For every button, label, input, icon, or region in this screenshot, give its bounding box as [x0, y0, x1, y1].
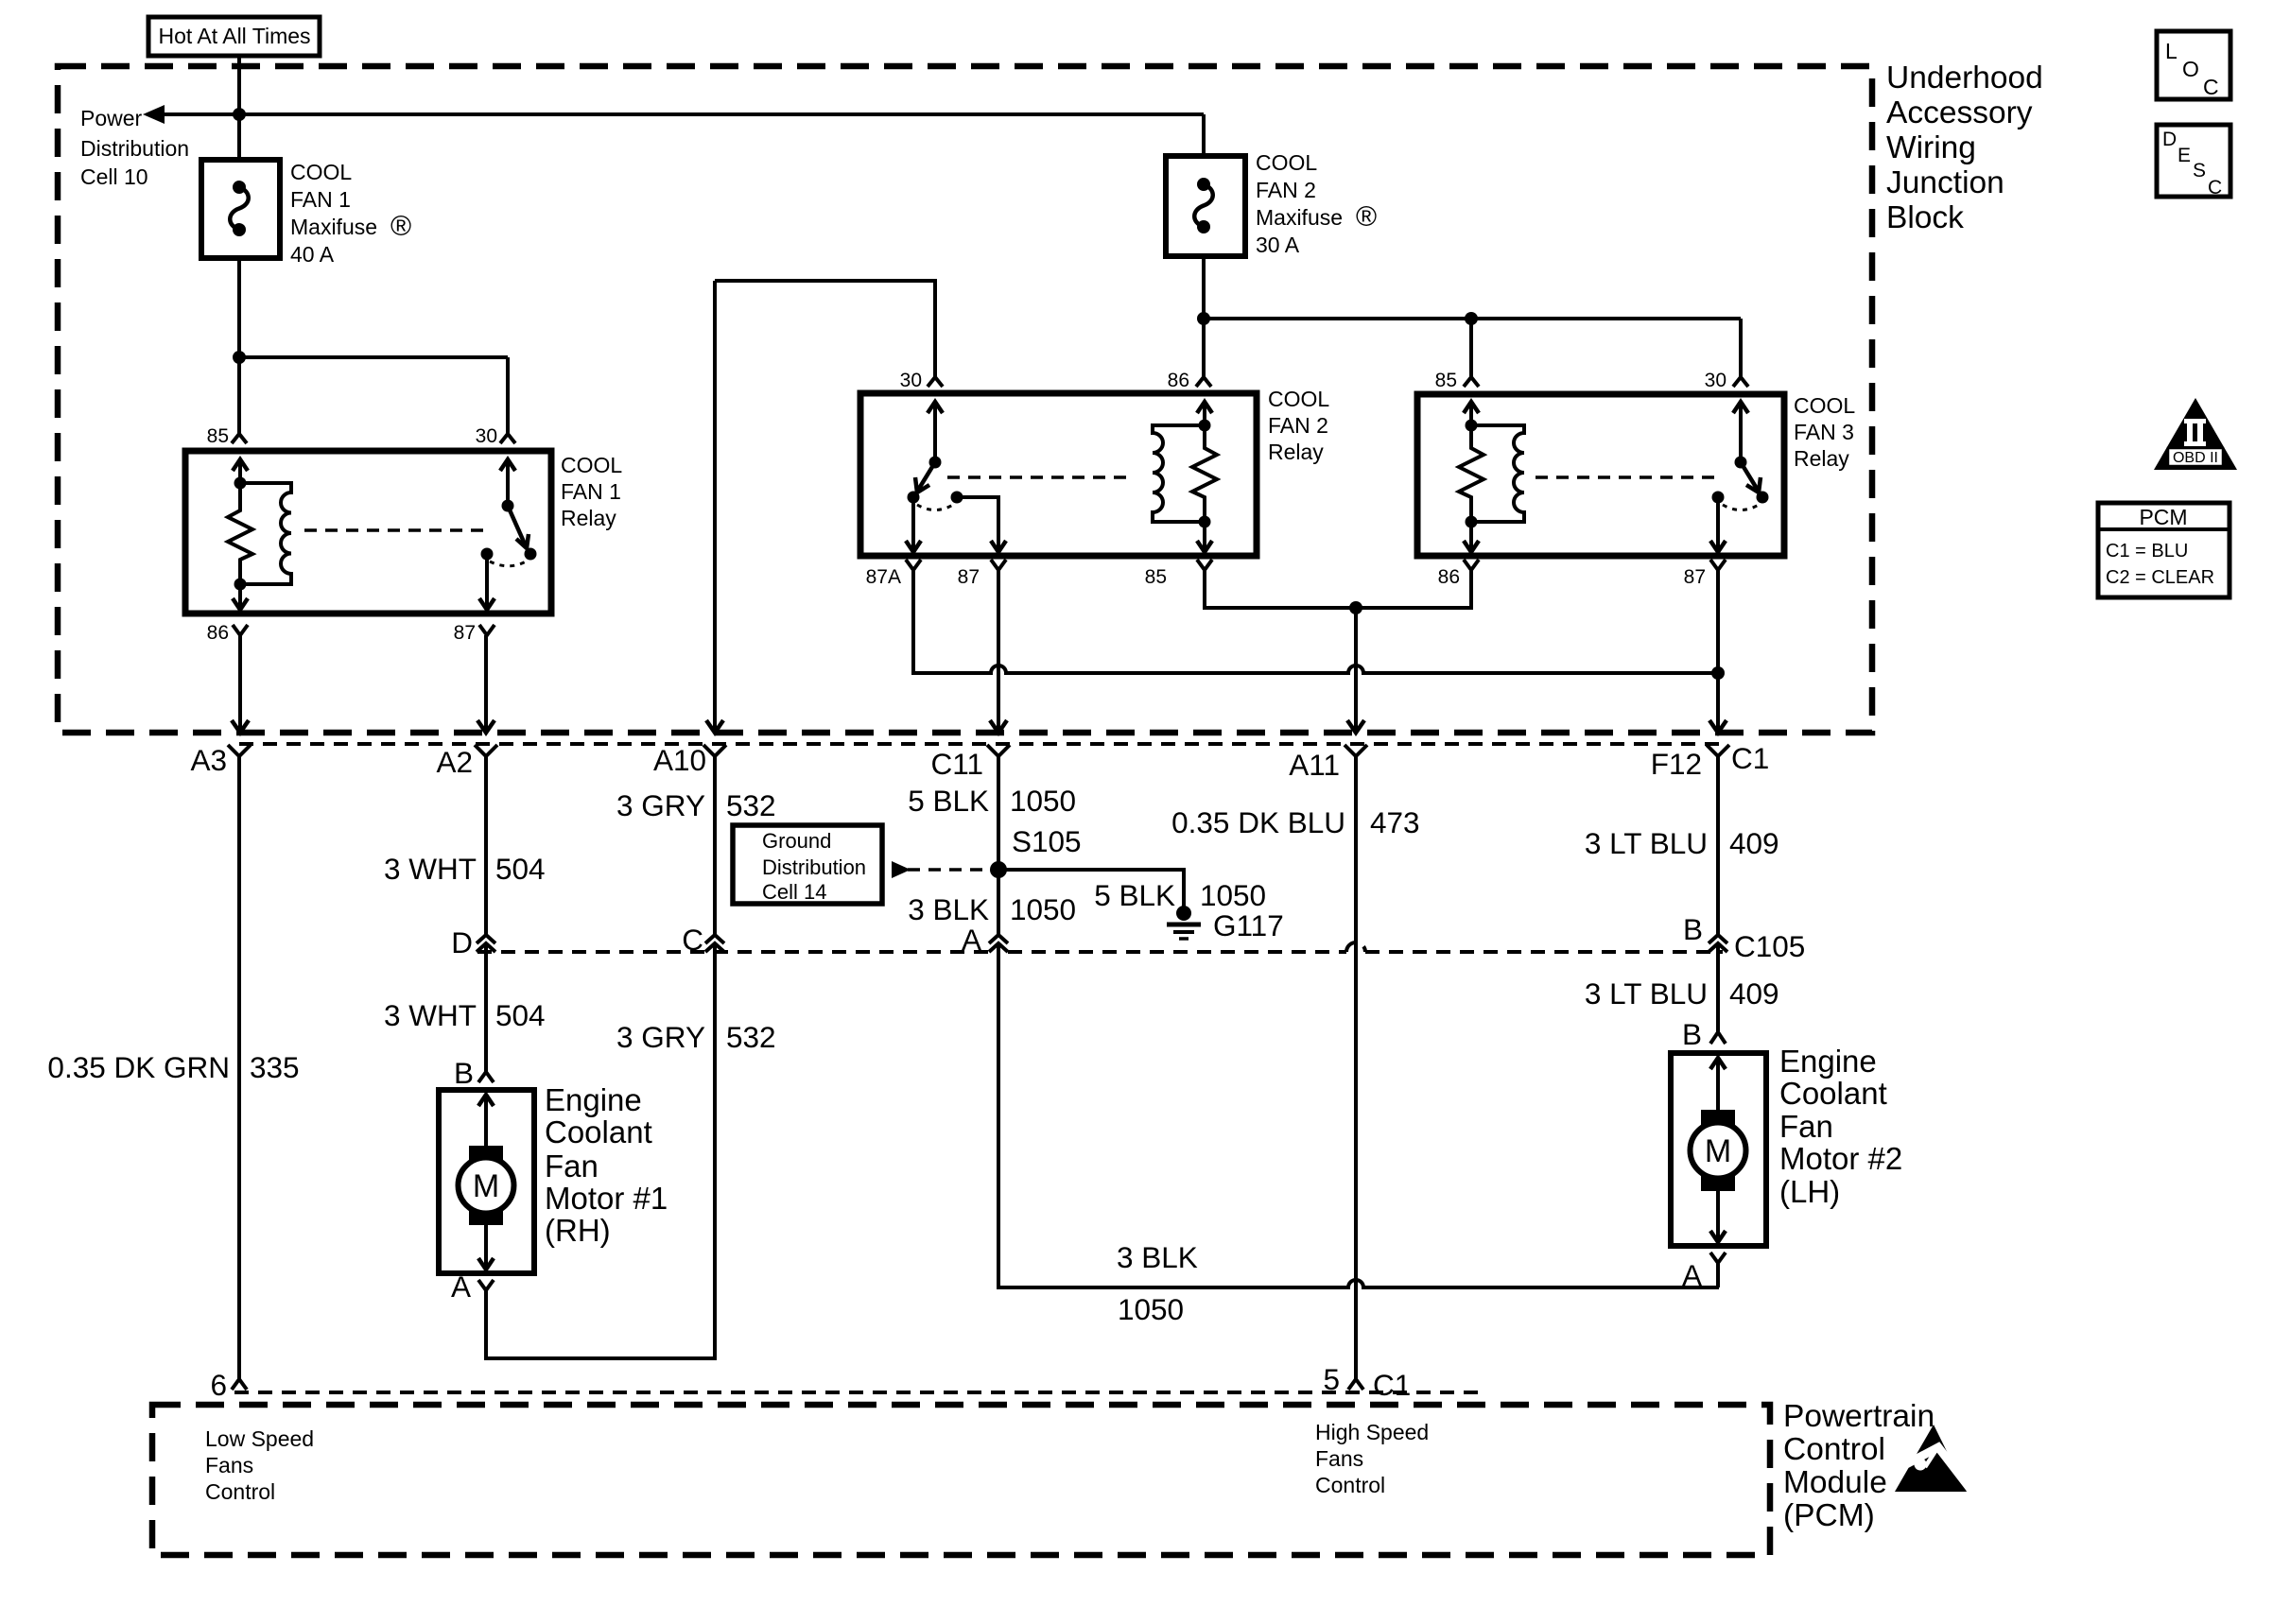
svg-text:Engine: Engine — [545, 1082, 642, 1117]
junction block: Underhood Accessory Wiring Junction Block dashed border — [58, 66, 1872, 733]
dashed actuation link relay K1 — [304, 528, 488, 532]
coil branch pin 86 side relay K2 — [1197, 402, 1212, 528]
svg-text:A2: A2 — [436, 745, 473, 779]
label: 0.35 DK GRN 335 — [47, 1050, 299, 1084]
svg-text:Module: Module — [1783, 1465, 1887, 1500]
label: 3 WHT 504 lower — [384, 998, 546, 1032]
svg-text:Coolant: Coolant — [545, 1114, 652, 1149]
svg-text:Distribution: Distribution — [80, 136, 189, 161]
pin 87 terminal of relay K1 — [454, 622, 495, 644]
label: 5 BLK 1050 to ground — [1094, 878, 1266, 912]
switch arm relay K3 (pin 30 to contact) — [1723, 402, 1769, 510]
svg-text:FAN 3: FAN 3 — [1794, 420, 1854, 444]
svg-text:85: 85 — [1435, 370, 1457, 391]
svg-text:Fans: Fans — [1315, 1446, 1363, 1471]
svg-text:3 BLK: 3 BLK — [908, 892, 989, 926]
svg-text:FAN 2: FAN 2 — [1268, 413, 1328, 438]
label: COOL FAN 2 Relay — [1268, 387, 1329, 464]
label: COOL FAN 1 Relay — [561, 453, 622, 530]
svg-text:Control: Control — [1315, 1473, 1385, 1497]
connector A of motor 1 — [451, 1270, 494, 1304]
pin 85 terminal of relay K3 — [1435, 370, 1479, 391]
coil exit to pin 85 relay K2 — [1197, 522, 1212, 552]
svg-text:1050: 1050 — [1118, 1292, 1184, 1326]
svg-text:3 WHT: 3 WHT — [384, 852, 477, 886]
svg-text:30 A: 30 A — [1256, 233, 1300, 257]
wire: relay K1 pin 87 to connector A2 — [477, 635, 495, 733]
svg-text:532: 532 — [726, 788, 776, 822]
resistor inside relay K1 — [228, 483, 252, 584]
svg-text:Junction: Junction — [1886, 165, 2004, 200]
svg-text:30: 30 — [900, 370, 922, 391]
relay K1 coil branch pin 85 side — [233, 459, 248, 591]
node: branch to relay K1 pin 30 — [233, 351, 246, 364]
svg-text:C: C — [2208, 177, 2222, 199]
svg-text:3 GRY: 3 GRY — [616, 1020, 705, 1054]
wire: F12 down to C105 pin B (3 LT BLU 409) — [1716, 756, 1720, 934]
svg-text:Relay: Relay — [1268, 440, 1324, 464]
svg-text:87: 87 — [454, 622, 476, 644]
svg-text:C: C — [682, 923, 703, 957]
pin 87 terminal of relay K3 — [1684, 560, 1726, 588]
wire: relay K2 pin 87A over to relay K3 pin 87 (with hops) — [913, 570, 1718, 673]
svg-text:C1: C1 — [1731, 741, 1769, 775]
svg-text:30: 30 — [476, 425, 497, 447]
pin 86 terminal of relay K3 — [1438, 560, 1479, 588]
label: COOL FAN 1 Maxifuse 40 A — [290, 160, 411, 267]
svg-text:Underhood: Underhood — [1886, 60, 2043, 95]
svg-text:0.35 DK GRN: 0.35 DK GRN — [47, 1050, 230, 1084]
relay U2: COOL FAN 2 Relay box — [860, 393, 1257, 556]
svg-text:(PCM): (PCM) — [1783, 1498, 1875, 1533]
wire: relay K3 pin 87 down to connector F12 — [1709, 570, 1726, 733]
wire: fuse 2 to relay K2 pin 86 and over to relay K3 — [1204, 256, 1741, 377]
switch arm relay K2 (pin 30 to contact 87A) — [908, 402, 963, 510]
label: Engine Coolant Fan Motor #2 (LH) — [1779, 1044, 1902, 1209]
label: 3 WHT 504 upper — [384, 852, 546, 886]
svg-text:3 GRY: 3 GRY — [616, 788, 705, 822]
svg-text:5 BLK: 5 BLK — [1094, 878, 1175, 912]
coil inside relay K2 — [1153, 425, 1205, 522]
svg-text:FAN 1: FAN 1 — [561, 479, 621, 504]
svg-text:(LH): (LH) — [1779, 1174, 1840, 1209]
pin 87A terminal of relay K2 — [866, 560, 921, 588]
svg-text:3 LT BLU: 3 LT BLU — [1585, 826, 1708, 860]
label: Powertrain Control Module (PCM) — [1783, 1399, 1935, 1533]
icon: LOC box — [2157, 31, 2230, 99]
svg-text:C1 = BLU: C1 = BLU — [2106, 541, 2188, 561]
svg-text:PCM: PCM — [2139, 505, 2187, 529]
svg-text:Engine: Engine — [1779, 1044, 1877, 1079]
connector B of motor 1 — [454, 1056, 494, 1090]
dashed reference wire from ground distribution to S105 — [892, 861, 990, 878]
svg-text:Maxifuse: Maxifuse — [1256, 205, 1343, 230]
svg-text:®: ® — [1356, 201, 1377, 233]
coil exit to pin 86 relay K1 — [233, 584, 248, 610]
svg-text:A: A — [451, 1270, 471, 1304]
resistor inside relay K2 — [1192, 425, 1217, 522]
svg-text:Power: Power — [80, 106, 143, 130]
svg-text:1050: 1050 — [1010, 892, 1076, 926]
svg-text:OBD II: OBD II — [2173, 450, 2218, 466]
wire: fuse 1 to relay K1 pins 85 and 30 — [239, 258, 508, 434]
svg-text:COOL: COOL — [1256, 150, 1317, 175]
svg-text:Motor #1: Motor #1 — [545, 1181, 668, 1216]
label: 5 BLK 1050 — [908, 784, 1076, 818]
wire: relay K2 pin 85 over to relay K3 pin 86 — [1205, 570, 1471, 608]
label: High Speed Fans Control — [1315, 1420, 1429, 1497]
svg-text:High Speed: High Speed — [1315, 1420, 1429, 1444]
svg-text:473: 473 — [1370, 805, 1420, 839]
fuse F1: COOL FAN 1 Maxifuse 40 A — [201, 160, 280, 258]
svg-text:532: 532 — [726, 1020, 776, 1054]
ground G117 — [1167, 906, 1284, 942]
wire: C105 pin D to motor 1 pin B (3 WHT 504) — [484, 944, 488, 1072]
svg-text:B: B — [454, 1056, 474, 1090]
wire: relay K2 pin 87 down to connector C11 — [990, 570, 1007, 733]
in-line connector C105 dashed line — [477, 942, 1723, 952]
pin 30 terminal of relay K3 — [1705, 370, 1748, 391]
svg-text:FAN 1: FAN 1 — [290, 187, 351, 212]
svg-text:M: M — [1705, 1133, 1731, 1169]
svg-text:A10: A10 — [653, 743, 706, 777]
connector A11 — [1289, 745, 1367, 782]
svg-text:3 BLK: 3 BLK — [1117, 1240, 1198, 1274]
wire: A3 to PCM pin 6 (0.35 DK GRN 335) — [237, 756, 241, 1379]
motor M2: Engine Coolant Fan Motor #2 (LH) — [1671, 1053, 1766, 1246]
svg-text:87A: 87A — [866, 566, 901, 588]
label: 3 LT BLU 409 lower — [1585, 976, 1779, 1011]
junction block bottom connector dashed line — [239, 742, 1719, 746]
connector A3 — [190, 743, 251, 777]
wire: A11 down to PCM pin 5 — [1354, 756, 1358, 1379]
svg-text:L: L — [2165, 39, 2178, 63]
svg-text:D: D — [451, 925, 473, 959]
PCM connector dashed line — [234, 1391, 1484, 1394]
svg-text:A: A — [1682, 1258, 1702, 1292]
svg-text:S: S — [2193, 160, 2206, 181]
label: COOL FAN 3 Relay — [1794, 393, 1855, 471]
coil inside relay K1 — [240, 483, 291, 584]
motor M1: Engine Coolant Fan Motor #1 (RH) — [439, 1090, 534, 1273]
svg-text:B: B — [1682, 1017, 1702, 1051]
label: COOL FAN 2 Maxifuse 30 A — [1256, 150, 1377, 257]
icon: OBD II triangle — [2154, 398, 2237, 470]
svg-text:G117: G117 — [1213, 908, 1284, 942]
svg-text:1050: 1050 — [1200, 878, 1266, 912]
wire: A2 down to in-line connector C105 pin D (3 WHT 504) — [484, 756, 488, 934]
wire: battery feed from Hot At All Times down to fuse 1 — [237, 56, 241, 160]
node: branch to relay K3 pin 85 — [1465, 312, 1478, 325]
fuse F2: COOL FAN 2 Maxifuse 30 A — [1166, 156, 1245, 256]
connector A2 — [436, 745, 497, 779]
svg-text:335: 335 — [250, 1050, 300, 1084]
svg-text:Wiring: Wiring — [1886, 130, 1976, 165]
label: 3 LT BLU 409 upper — [1585, 826, 1779, 860]
wire: junction down to connector A11 (0.35 DK BLU 473) — [1347, 608, 1364, 733]
svg-text:86: 86 — [1168, 370, 1189, 391]
svg-text:30: 30 — [1705, 370, 1726, 391]
svg-text:C11: C11 — [931, 747, 983, 781]
svg-text:Cell 10: Cell 10 — [80, 164, 148, 189]
svg-text:S105: S105 — [1012, 824, 1082, 858]
svg-text:Powertrain: Powertrain — [1783, 1399, 1935, 1434]
svg-text:504: 504 — [495, 852, 546, 886]
svg-text:Cell 14: Cell 14 — [762, 880, 826, 904]
label: 3 GRY 532 lower — [616, 1020, 776, 1054]
svg-text:A3: A3 — [190, 743, 227, 777]
label: Power Distribution Cell 10 — [80, 106, 189, 189]
svg-text:COOL: COOL — [561, 453, 622, 477]
pin 85 terminal of relay K2 — [1145, 560, 1212, 588]
node: splice S105 — [990, 861, 1007, 878]
svg-text:COOL: COOL — [1794, 393, 1855, 418]
icon: DESC box — [2157, 125, 2230, 199]
svg-text:87: 87 — [958, 566, 980, 588]
svg-text:85: 85 — [207, 425, 229, 447]
svg-text:5 BLK: 5 BLK — [908, 784, 989, 818]
svg-text:85: 85 — [1145, 566, 1167, 588]
svg-text:86: 86 — [1438, 566, 1460, 588]
svg-text:A11: A11 — [1289, 748, 1340, 782]
relay U1: COOL FAN 1 Relay box — [185, 451, 551, 613]
svg-text:Relay: Relay — [1794, 446, 1849, 471]
wire: C105 pin C up to connector A10 — [713, 756, 717, 934]
svg-text:6: 6 — [210, 1368, 227, 1402]
svg-text:409: 409 — [1729, 976, 1779, 1011]
wire: S105 to ground G117 (5 BLK 1050) — [998, 870, 1184, 907]
contact 87A leg relay K2 — [906, 497, 921, 552]
label: 3 BLK 1050 bottom run — [1117, 1240, 1198, 1326]
dashed actuation link relay K2 — [947, 475, 1132, 479]
svg-text:Hot At All Times: Hot At All Times — [158, 24, 310, 48]
svg-text:Relay: Relay — [561, 506, 616, 530]
svg-text:COOL: COOL — [290, 160, 352, 184]
svg-text:Control: Control — [1783, 1432, 1885, 1467]
svg-text:3 LT BLU: 3 LT BLU — [1585, 976, 1708, 1011]
svg-text:F12: F12 — [1651, 747, 1702, 781]
PCM module dashed border — [152, 1405, 1770, 1555]
label: 3 BLK 1050 — [908, 892, 1076, 926]
connector B of motor 2 — [1682, 1017, 1726, 1051]
connector C105 pin B — [1683, 912, 1805, 963]
coil exit to pin 86 relay K3 — [1464, 522, 1479, 552]
pin 6 of PCM (Low Speed Fans Control) — [210, 1368, 247, 1402]
svg-text:Motor #2: Motor #2 — [1779, 1141, 1902, 1176]
svg-text:E: E — [2178, 145, 2191, 166]
svg-text:87: 87 — [1684, 566, 1706, 588]
legend: PCM connector colors box — [2098, 503, 2230, 597]
contact 87 leg relay K3 — [1710, 492, 1726, 553]
pin 86 terminal of relay K1 — [207, 622, 248, 644]
svg-text:Accessory: Accessory — [1886, 95, 2033, 130]
label: Engine Coolant Fan Motor #1 (RH) — [545, 1082, 668, 1248]
pin 5 of PCM (High Speed Fans Control) — [1323, 1362, 1411, 1402]
node: power distribution tap — [233, 108, 246, 121]
svg-text:C2 = CLEAR: C2 = CLEAR — [2106, 567, 2214, 588]
node: branch to PCM connector A11 — [1349, 601, 1362, 614]
svg-text:Distribution: Distribution — [762, 855, 866, 879]
connector A10 — [653, 743, 726, 777]
svg-text:O: O — [2182, 57, 2199, 81]
svg-text:Ground: Ground — [762, 829, 831, 853]
contact 87 of relay K1 — [479, 548, 495, 611]
label: Underhood Accessory Wiring Junction Block — [1886, 60, 2043, 235]
svg-text:Coolant: Coolant — [1779, 1076, 1887, 1111]
wire: motor 1 pin A over to A10 gray wire — [486, 944, 715, 1358]
wire: C105 pin B down to motor 2 pin B — [1716, 944, 1720, 1032]
wire: feed to power distribution (arrow left) and over to fuse 2 — [143, 105, 1204, 156]
svg-text:0.35 DK BLU: 0.35 DK BLU — [1171, 805, 1345, 839]
pin 87 terminal of relay K2 — [958, 560, 1006, 588]
svg-text:A: A — [962, 923, 981, 957]
svg-text:504: 504 — [495, 998, 546, 1032]
svg-text:86: 86 — [207, 622, 229, 644]
relay U3: COOL FAN 3 Relay box — [1417, 394, 1784, 556]
svg-text:409: 409 — [1729, 826, 1779, 860]
ground distribution reference box — [733, 825, 882, 904]
label: 3 GRY 532 upper — [616, 788, 776, 822]
svg-text:Low Speed: Low Speed — [205, 1426, 314, 1451]
wire: relay K1 pin 86 to PCM pin A3 — [232, 635, 249, 733]
svg-text:®: ® — [390, 211, 411, 242]
wire: A10 up and over to relay K2 pin 30 — [706, 281, 935, 733]
svg-text:40 A: 40 A — [290, 242, 335, 267]
svg-text:M: M — [473, 1168, 499, 1204]
label: 0.35 DK BLU 473 — [1171, 805, 1419, 839]
resistor inside relay K3 — [1459, 425, 1484, 522]
svg-text:C: C — [2203, 75, 2219, 99]
svg-text:FAN 2: FAN 2 — [1256, 178, 1316, 202]
svg-text:Block: Block — [1886, 200, 1964, 235]
svg-text:C1: C1 — [1373, 1368, 1411, 1402]
svg-text:(RH): (RH) — [545, 1213, 611, 1248]
svg-text:3 WHT: 3 WHT — [384, 998, 477, 1032]
label: Hot At All Times box — [148, 17, 320, 56]
svg-text:Fan: Fan — [1779, 1109, 1833, 1144]
pin 30 terminal of relay K2 — [900, 370, 943, 391]
icon: ESD sensitive device triangle — [1892, 1425, 1969, 1492]
wire: C105 pin A down and over to motor 2 pin A (3 BLK 1050) — [998, 944, 1719, 1287]
svg-text:Fans: Fans — [205, 1453, 253, 1477]
svg-text:D: D — [2162, 129, 2177, 150]
pin 30 terminal of relay K1 — [476, 425, 515, 447]
connector C105 pin C — [682, 923, 724, 957]
svg-text:COOL: COOL — [1268, 387, 1329, 411]
node: fuse 2 output branch — [1197, 312, 1210, 325]
svg-text:B: B — [1683, 912, 1703, 946]
wire: C11 down through splice S105 to C105 pin A (5 BLK 1050) — [997, 756, 1000, 934]
connector F12 C1 — [1651, 741, 1770, 781]
connector A of motor 2 — [1682, 1253, 1726, 1292]
connector C105 pin D — [451, 925, 495, 959]
pin 85 terminal of relay K1 — [207, 425, 247, 447]
svg-text:C105: C105 — [1734, 929, 1805, 963]
svg-text:1050: 1050 — [1010, 784, 1076, 818]
svg-text:Maxifuse: Maxifuse — [290, 215, 377, 239]
svg-text:Fan: Fan — [545, 1149, 599, 1183]
node: pin 87A line joins relay K3 pin 87 wire — [1711, 666, 1725, 680]
svg-text:Control: Control — [205, 1479, 275, 1504]
connector C11 — [931, 745, 1010, 781]
label: Low Speed Fans Control — [205, 1426, 314, 1504]
switch arm relay K1 (pin 30 to contact) — [490, 459, 537, 566]
contact 87 leg relay K2 — [957, 497, 1006, 552]
coil inside relay K3 — [1471, 425, 1524, 522]
dashed actuation link relay K3 — [1536, 475, 1721, 479]
pin 86 terminal of relay K2 — [1168, 370, 1211, 391]
coil branch pin 85 side relay K3 — [1464, 402, 1479, 528]
connector C105 pin A — [962, 923, 1008, 957]
